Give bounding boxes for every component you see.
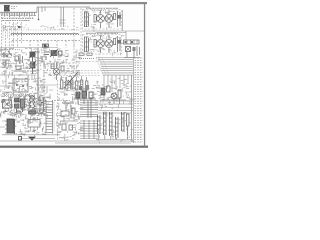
relay RY101 [43,44,49,48]
pin numbers for CN103 [53,102,55,132]
node junction mark [18,26,21,28]
wire ribbon slant [96,58,109,76]
resistor R150 group [60,103,78,130]
pin label [86,7,118,9]
pin label [2,24,29,31]
wire crossing lines bottom right [95,101,133,113]
resistor R130 inside [79,53,95,59]
IC U103 [28,117,40,130]
coil L112 tall [109,112,113,136]
wire [84,36,124,57]
value label [1,17,33,19]
wire bottom runs [0,121,133,143]
value labels under bus [2,19,34,21]
wire top center run [37,7,90,20]
coil L110 tall [97,115,101,134]
connector CN102 header [124,40,140,44]
value label [54,100,70,102]
coil L113 tall [115,117,119,138]
wire dashed harness below comb [12,41,80,50]
connector CN103 ladder [46,100,53,134]
connector CN101 comb [11,34,79,36]
wire [56,98,84,141]
transistor Q110 pair dark [29,51,36,74]
resistor ladder row center [61,76,88,90]
IC U102 dashed box [76,50,99,62]
pin label [86,32,118,34]
bus block hatched BL2 [80,120,98,139]
IC U101 [13,79,28,92]
coil L101 [84,12,89,28]
wire [39,82,53,104]
resistor R140 zigzag column [29,96,37,114]
wire bottom border rail [0,146,148,148]
wire dotted line above comb [4,29,80,31]
transistor Q106 [105,35,113,53]
terminal strip TB101 [133,57,135,143]
transformer T102 [2,119,60,135]
IC block Q104 dashed enclosure [83,35,122,55]
value label [2,49,20,51]
wire bottom right joins [96,134,133,140]
wire dashed mid bus [40,63,102,76]
wire mid-bottom dashed vertical [57,80,59,140]
capacitor C130 stack dark [15,98,25,113]
wire [97,106,135,143]
wire [58,80,100,101]
wire horizontal y47.5 [0,47,58,49]
diode D120 diagonal [64,72,78,88]
IC block Q101 dashed enclosure [83,10,122,30]
transistor Q130 cluster dark [74,85,96,104]
coil L102 [84,37,89,53]
capacitor C120 [51,63,64,80]
wire [84,10,119,32]
wire dashed feed line [73,8,75,31]
relay RY102 [124,46,140,58]
diode D130 column [39,96,46,114]
wire [1,96,52,118]
transistor Q103 [105,10,113,28]
coil L111 tall [103,112,107,135]
pin label [41,26,79,30]
value label [4,95,30,97]
transistor Q140 cluster [100,86,126,104]
transistor Q105 [97,35,105,53]
wire inter-block links [82,10,144,40]
wire [41,48,82,81]
wire [3,98,47,116]
wire ribbon harness right [96,58,133,76]
relay RY103 [3,100,12,108]
wire vertical pair to driver [60,7,66,27]
value label [2,20,30,22]
value label [1,15,36,17]
wire top border rail [0,2,147,4]
wire [96,79,134,109]
capacitor row on bus [2,13,35,18]
coil L114 tall [121,112,125,131]
pin labels block2 [86,33,118,51]
wire [0,78,46,99]
wire right border rail [144,3,145,147]
wire horizontal y85 [40,84,58,86]
capacitor C110 cluster [14,55,26,71]
wire drops below ribbon [104,75,132,140]
misc left mid wires [0,50,36,95]
diode D101 group left mid [2,51,12,66]
wire [14,116,48,137]
wire vertical x44 [43,48,45,98]
switch bank S101 labels row [4,95,30,97]
wire [0,48,41,79]
wire vertical dashed x74 [73,32,75,76]
pin labels block1 [86,8,118,26]
bus block hatched BL1 [80,100,98,118]
resistor R110 [94,11,121,27]
transistor Q120 knot center [42,49,62,62]
pin labels [3,26,16,40]
wire left vertical trunk [37,48,39,104]
wire vertical dashed x81 [80,8,82,57]
resistor R120 [94,36,121,52]
node left dashed drops [2,17,22,58]
transistor Q102 [97,10,105,28]
resistor R160 [127,114,130,139]
transformer T101 [4,3,10,12]
diode D140 on bottom wire [19,137,56,141]
wire AC bus [0,12,37,14]
value label [11,7,17,9]
